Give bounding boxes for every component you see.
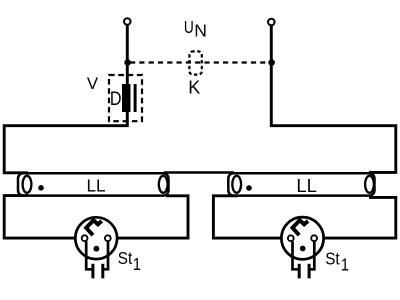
terminal right (supply) xyxy=(268,19,275,26)
starter 2 envelope circle xyxy=(281,217,323,259)
starter 2 left terminal circle xyxy=(288,235,294,241)
lamp 1 left electrode ellipse xyxy=(23,176,32,193)
starter 1 left terminal circle xyxy=(82,235,88,241)
starter 2 bimetal zigzag electrode xyxy=(293,220,309,235)
svg-text:V: V xyxy=(87,74,99,93)
starter 1 right pin xyxy=(101,264,104,279)
starter St1 (lamp 1) xyxy=(75,217,117,278)
choke D winding (filled) xyxy=(122,84,131,112)
svg-text:St: St xyxy=(118,248,133,268)
svg-text:D: D xyxy=(110,88,122,110)
svg-text:LL: LL xyxy=(87,176,106,196)
lamp 1 tube LL outline xyxy=(18,173,169,195)
starter 1 gas dot xyxy=(94,246,100,252)
svg-text:St: St xyxy=(325,248,340,268)
lamp 2 left electrode ellipse xyxy=(232,176,241,193)
starter 2 left pin xyxy=(298,264,301,279)
svg-text:1: 1 xyxy=(341,255,349,274)
svg-text:LL: LL xyxy=(296,175,316,196)
wire from right terminal down, right top rail to lamp 2 right top xyxy=(271,26,396,173)
starter 2 right pin xyxy=(308,264,311,279)
starter 2 left leg and foot xyxy=(293,241,300,269)
lamp 1 gas dot xyxy=(38,185,44,191)
svg-text:N: N xyxy=(194,21,207,41)
svg-text:U: U xyxy=(184,18,194,37)
choke core line xyxy=(134,84,137,112)
starter 1 left pin xyxy=(91,264,94,279)
lamp 1 right electrode ellipse xyxy=(159,176,168,193)
ballast dashed outline xyxy=(109,75,142,121)
svg-text:K: K xyxy=(188,77,200,97)
terminal left (supply) xyxy=(124,18,131,25)
wire starter 1 right to lamp1 bottom-right (descender) xyxy=(108,196,188,238)
wire lamp1 bottom-left to starter 1 left xyxy=(4,196,84,239)
starter 2 right leg and foot xyxy=(309,241,314,269)
switch K dashed outline xyxy=(189,51,201,74)
lamp 2 tube LL outline xyxy=(228,173,374,195)
lamp 2 right electrode ellipse xyxy=(365,176,374,193)
starter 2 gas dot xyxy=(300,246,306,252)
svg-text:1: 1 xyxy=(133,255,141,274)
starter 1 bimetal zigzag electrode xyxy=(86,220,102,235)
wire lamp2 bottom-left (descender) to starter 2 left xyxy=(213,196,290,238)
wire starter 2 right to lamp2 bottom-right via right rail xyxy=(314,197,396,238)
wire from left terminal down through ballast, left rail to lamp 1 top xyxy=(4,25,127,173)
starter 2 right terminal circle xyxy=(311,235,317,241)
dashed control line from K to both supply wires xyxy=(130,61,269,63)
junction dot left on supply wire xyxy=(124,59,131,66)
starter St1 (lamp 2) xyxy=(281,217,323,278)
series connector wire lamp1 right top to lamp2 left top xyxy=(164,171,234,174)
junction dot right on supply wire xyxy=(268,59,275,66)
starter 1 right leg and foot xyxy=(103,241,108,269)
starter 1 left leg and foot xyxy=(86,241,93,269)
starter 1 right terminal circle xyxy=(105,235,111,241)
lamp 2 gas dot xyxy=(246,185,252,191)
starter 1 envelope circle xyxy=(75,217,117,259)
